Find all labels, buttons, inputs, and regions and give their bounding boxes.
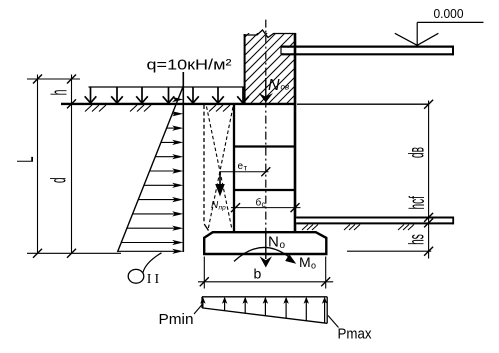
moment Mo arc [234, 247, 316, 270]
ground line left [61, 103, 296, 105]
centerline of wall [265, 20, 267, 236]
dimension b_c [231, 197, 301, 213]
extension line footing bottom right [347, 250, 431, 252]
wall top break line [244, 30, 296, 38]
lateral pressure arrows [118, 97, 184, 254]
surcharge arrows q [85, 87, 249, 103]
svg-text:ов: ов [281, 83, 290, 92]
ground ext at d line [33, 75, 76, 258]
basement wall left edge [233, 104, 235, 232]
soil pressure diagram [202, 297, 327, 324]
right dimension line dv/hcf/hs [424, 100, 433, 259]
block joint 2 [234, 189, 295, 191]
footing outline [204, 232, 326, 254]
svg-text:dв: dв [406, 147, 429, 158]
force No arrow [260, 233, 286, 268]
svg-text:II: II [147, 272, 162, 287]
svg-text:т: т [244, 164, 248, 173]
svg-text:d: d [48, 177, 71, 183]
dashed eccentricity line [203, 105, 205, 224]
force Now arrow [259, 77, 290, 103]
svg-text:Pmin: Pmin [159, 311, 194, 328]
earth pressure envelope diagonal [118, 86, 184, 252]
wire load line [89, 86, 245, 88]
ground hatch marks [85, 105, 230, 112]
svg-text:с: с [262, 200, 266, 209]
pressure arrows up [200, 297, 327, 323]
svg-text:L: L [13, 156, 38, 162]
extension line top left [27, 78, 80, 80]
svg-text:hs: hs [406, 234, 429, 245]
section mark II [128, 253, 162, 287]
block joint 1 [234, 145, 295, 147]
basement floor slab [296, 217, 453, 225]
svg-text:q=10кН/м²: q=10кН/м² [147, 57, 232, 74]
dimension line L [37, 75, 39, 254]
svg-text:0.000: 0.000 [434, 6, 464, 21]
svg-text:Pmax: Pmax [338, 326, 372, 343]
leader line from q label / pressure tips [182, 72, 184, 252]
basement wall right edge [294, 33, 297, 232]
extension line bottom left [27, 252, 121, 254]
svg-text:М: М [299, 254, 311, 270]
dimension e_t [220, 161, 270, 176]
svg-text:hcf: hcf [406, 196, 429, 210]
dimension line d [71, 75, 73, 254]
0.000 elevation mark [395, 6, 484, 45]
wall hatching [176, 32, 367, 106]
svg-text:b: b [254, 266, 262, 282]
floor slab top right [281, 46, 453, 56]
svg-text:о: о [311, 261, 316, 271]
svg-text:N: N [268, 77, 280, 94]
svg-text:h: h [46, 90, 71, 96]
svg-text:о: о [280, 240, 286, 251]
hatch under basement slab [302, 225, 414, 231]
inclined force line 1 [207, 107, 232, 229]
wall above ground (hatched) left edge [244, 34, 246, 104]
inclined force line 2 [208, 107, 233, 230]
ground line right [297, 103, 429, 105]
svg-text:пр: пр [219, 205, 227, 212]
dimension b [198, 257, 333, 289]
force Npr arrow [211, 172, 226, 212]
